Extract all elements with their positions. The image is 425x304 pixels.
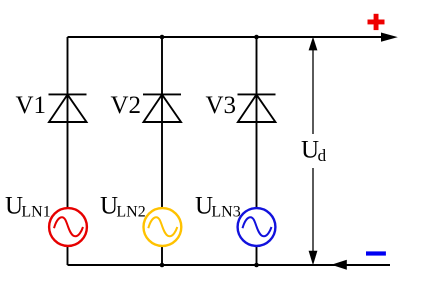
svg-text:U: U (100, 192, 118, 219)
svg-text:U: U (301, 137, 319, 164)
svg-text:V1: V1 (16, 92, 47, 119)
svg-text:d: d (318, 146, 327, 165)
svg-text:V2: V2 (111, 92, 142, 119)
svg-text:V3: V3 (206, 92, 237, 119)
svg-text:U: U (195, 192, 213, 219)
svg-text:LN2: LN2 (116, 203, 145, 220)
svg-text:U: U (5, 192, 23, 219)
svg-text:LN1: LN1 (21, 203, 50, 220)
svg-text:LN3: LN3 (211, 203, 240, 220)
